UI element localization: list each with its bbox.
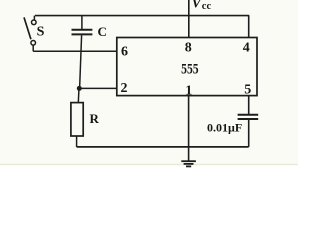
op-amp U1 555 box [117, 38, 257, 96]
wire rail to pin 4 [248, 16, 250, 38]
svg-text:6: 6 [121, 44, 128, 59]
paper background [0, 0, 298, 165]
capacitor C2 0.01uF [238, 115, 259, 147]
svg-text:555: 555 [181, 62, 199, 78]
capacitor C [72, 16, 93, 89]
wire pin6 horizontal [33, 50, 117, 52]
switch S [24, 16, 36, 52]
svg-text:S: S [37, 24, 45, 39]
svg-text:5: 5 [244, 82, 251, 97]
svg-text:4: 4 [243, 41, 250, 56]
svg-text:8: 8 [185, 41, 192, 56]
svg-text:R: R [90, 111, 100, 126]
svg-text:2: 2 [121, 81, 128, 96]
ground [181, 161, 196, 166]
svg-text:cc: cc [202, 1, 212, 12]
wire pin 5 down [248, 96, 250, 114]
wire pin2 horizontal [79, 87, 117, 89]
page edge line [0, 164, 298, 165]
wire Vcc to pin 8 [188, 0, 190, 38]
wire bottom rail [77, 146, 249, 148]
wire pin 1 to ground [188, 96, 190, 161]
svg-text:C: C [98, 24, 107, 39]
wire top rail [35, 15, 249, 17]
svg-text:0.01μF: 0.01μF [207, 121, 242, 135]
node junction dot [77, 86, 82, 91]
resistor R [71, 90, 83, 147]
